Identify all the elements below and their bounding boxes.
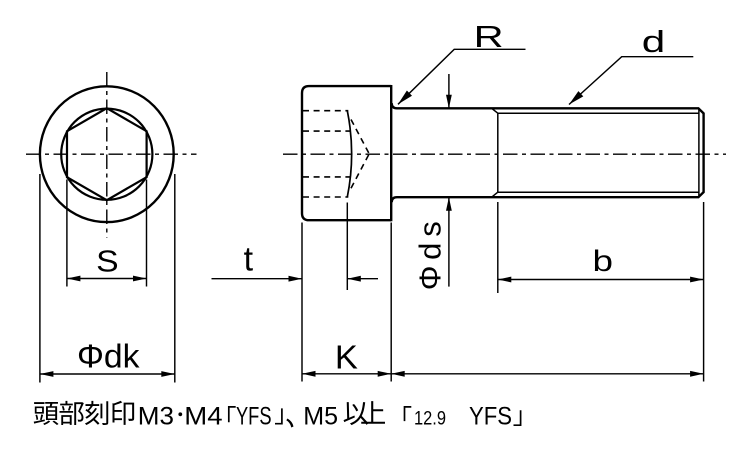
svg-text:b: b xyxy=(593,245,614,278)
svg-text:M4: M4 xyxy=(184,402,222,430)
svg-text:YFS: YFS xyxy=(469,402,512,430)
svg-text:S: S xyxy=(96,244,119,279)
svg-text:M5: M5 xyxy=(303,402,338,430)
svg-text:Φdk: Φdk xyxy=(77,338,140,375)
svg-text:R: R xyxy=(474,20,504,54)
svg-text:12.9: 12.9 xyxy=(414,408,446,429)
svg-text:t: t xyxy=(244,241,254,279)
svg-text:YFS: YFS xyxy=(236,402,272,430)
svg-text:Φds: Φds xyxy=(413,221,448,290)
svg-text:M3: M3 xyxy=(138,402,174,430)
svg-text:K: K xyxy=(335,339,358,376)
svg-text:d: d xyxy=(642,24,666,59)
